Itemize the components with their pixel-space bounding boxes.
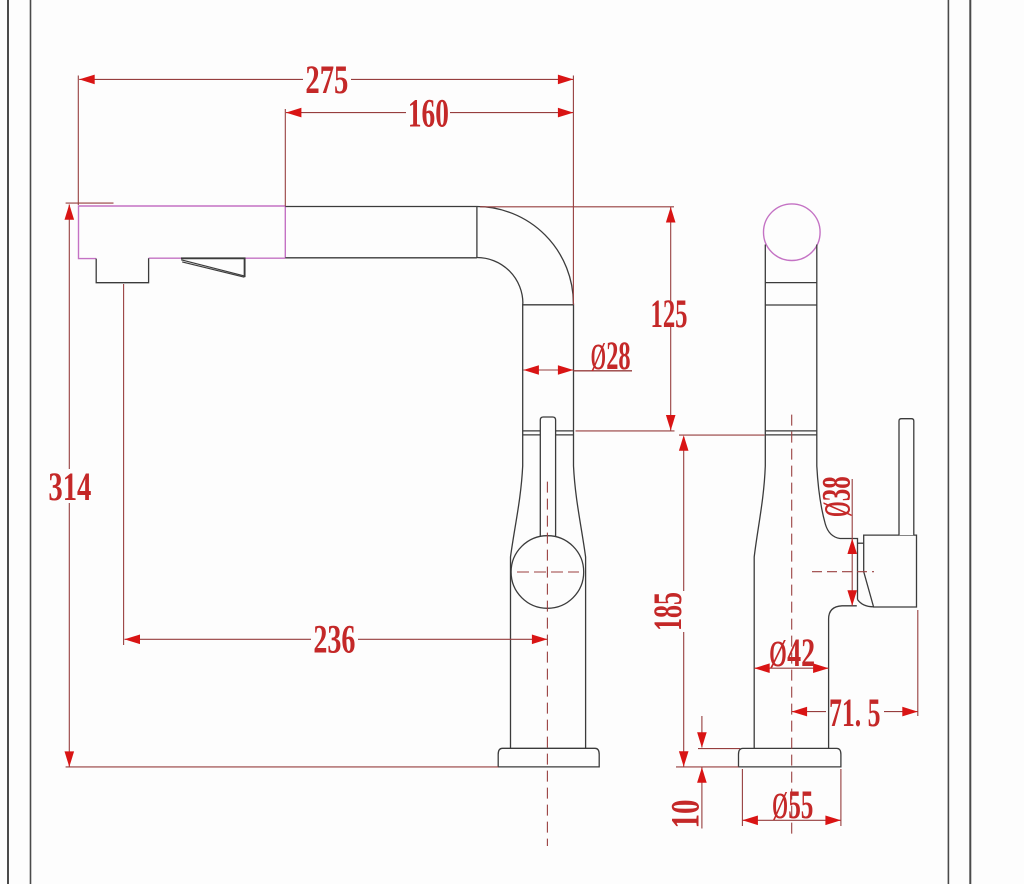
front view: diverter wedge under head: [181, 258, 245, 277]
front view: upper joint line: [523, 430, 574, 432]
centerline: side ball horizontal: [812, 571, 874, 573]
svg-text:160: 160: [408, 91, 449, 136]
svg-text:185: 185: [645, 592, 690, 631]
svg-text:71. 5: 71. 5: [829, 690, 881, 735]
sheet frame right outer line: [969, 0, 971, 884]
svg-text:275: 275: [305, 57, 348, 102]
side view: pull-out head circle (magenta): [764, 204, 821, 261]
side view: ball bottom arc: [858, 600, 874, 607]
side view: tube body right profile into handle boss: [817, 245, 858, 600]
dimension ø55: [742, 769, 841, 826]
dimension 160: [285, 109, 573, 206]
front view: spray head nozzle block: [96, 258, 148, 283]
side view: head collar lower line: [765, 304, 817, 306]
front view: body right profile: [574, 304, 586, 749]
sheet frame left outer line: [7, 0, 9, 884]
centerline: side vertical: [791, 415, 793, 838]
svg-text:ø55: ø55: [772, 773, 814, 830]
front view: spout inner bend arc: [477, 258, 523, 304]
dimension 275: [78, 76, 573, 305]
front view: base: [498, 748, 599, 767]
dimension 185: [676, 435, 765, 767]
side view: boss bottom edge and corner: [829, 606, 857, 749]
dimension 125: [480, 207, 675, 431]
dimension ø28: [523, 369, 573, 371]
svg-text:314: 314: [48, 464, 91, 509]
dimension 314: [66, 203, 499, 767]
front view: handle ball circle: [511, 536, 584, 609]
centerline: front ball horizontal: [517, 571, 579, 573]
sheet frame right inner line: [947, 0, 949, 884]
svg-text:10: 10: [663, 800, 708, 829]
side view: upper joint line: [765, 430, 817, 432]
side view: handle body: [864, 535, 917, 607]
front view: pull-out spray head outline (magenta): [79, 206, 286, 259]
svg-text:ø38: ø38: [804, 476, 862, 517]
dimension ø42: [754, 667, 828, 669]
front view: body left profile: [511, 304, 523, 749]
svg-text:125: 125: [651, 291, 688, 336]
front view: bend-to-tube joint line: [523, 304, 574, 306]
side view: base: [739, 748, 841, 767]
centerline: spray head vertical extension: [123, 284, 125, 645]
side view: handle lever bar (white filled): [899, 419, 914, 535]
side view: boss-handle tick: [858, 542, 864, 544]
svg-text:ø28: ø28: [590, 324, 630, 381]
side view: tube and body left profile: [754, 245, 765, 749]
dimension 10: [698, 716, 740, 829]
centerline: front vertical: [546, 482, 548, 846]
front view: spout straight section: [285, 207, 585, 749]
svg-text:236: 236: [313, 617, 355, 662]
front view: lower joint line: [523, 434, 574, 436]
front view: handle stem (white filled): [540, 417, 555, 537]
dimension ø38: [851, 479, 853, 606]
dimension 71.5: [792, 610, 918, 716]
dimension 236: [125, 638, 548, 640]
side view: head collar upper line: [765, 282, 817, 284]
front view: spout outer bend arc: [477, 207, 574, 304]
sheet frame left inner line: [30, 0, 32, 884]
side view: lower joint line: [765, 434, 817, 436]
